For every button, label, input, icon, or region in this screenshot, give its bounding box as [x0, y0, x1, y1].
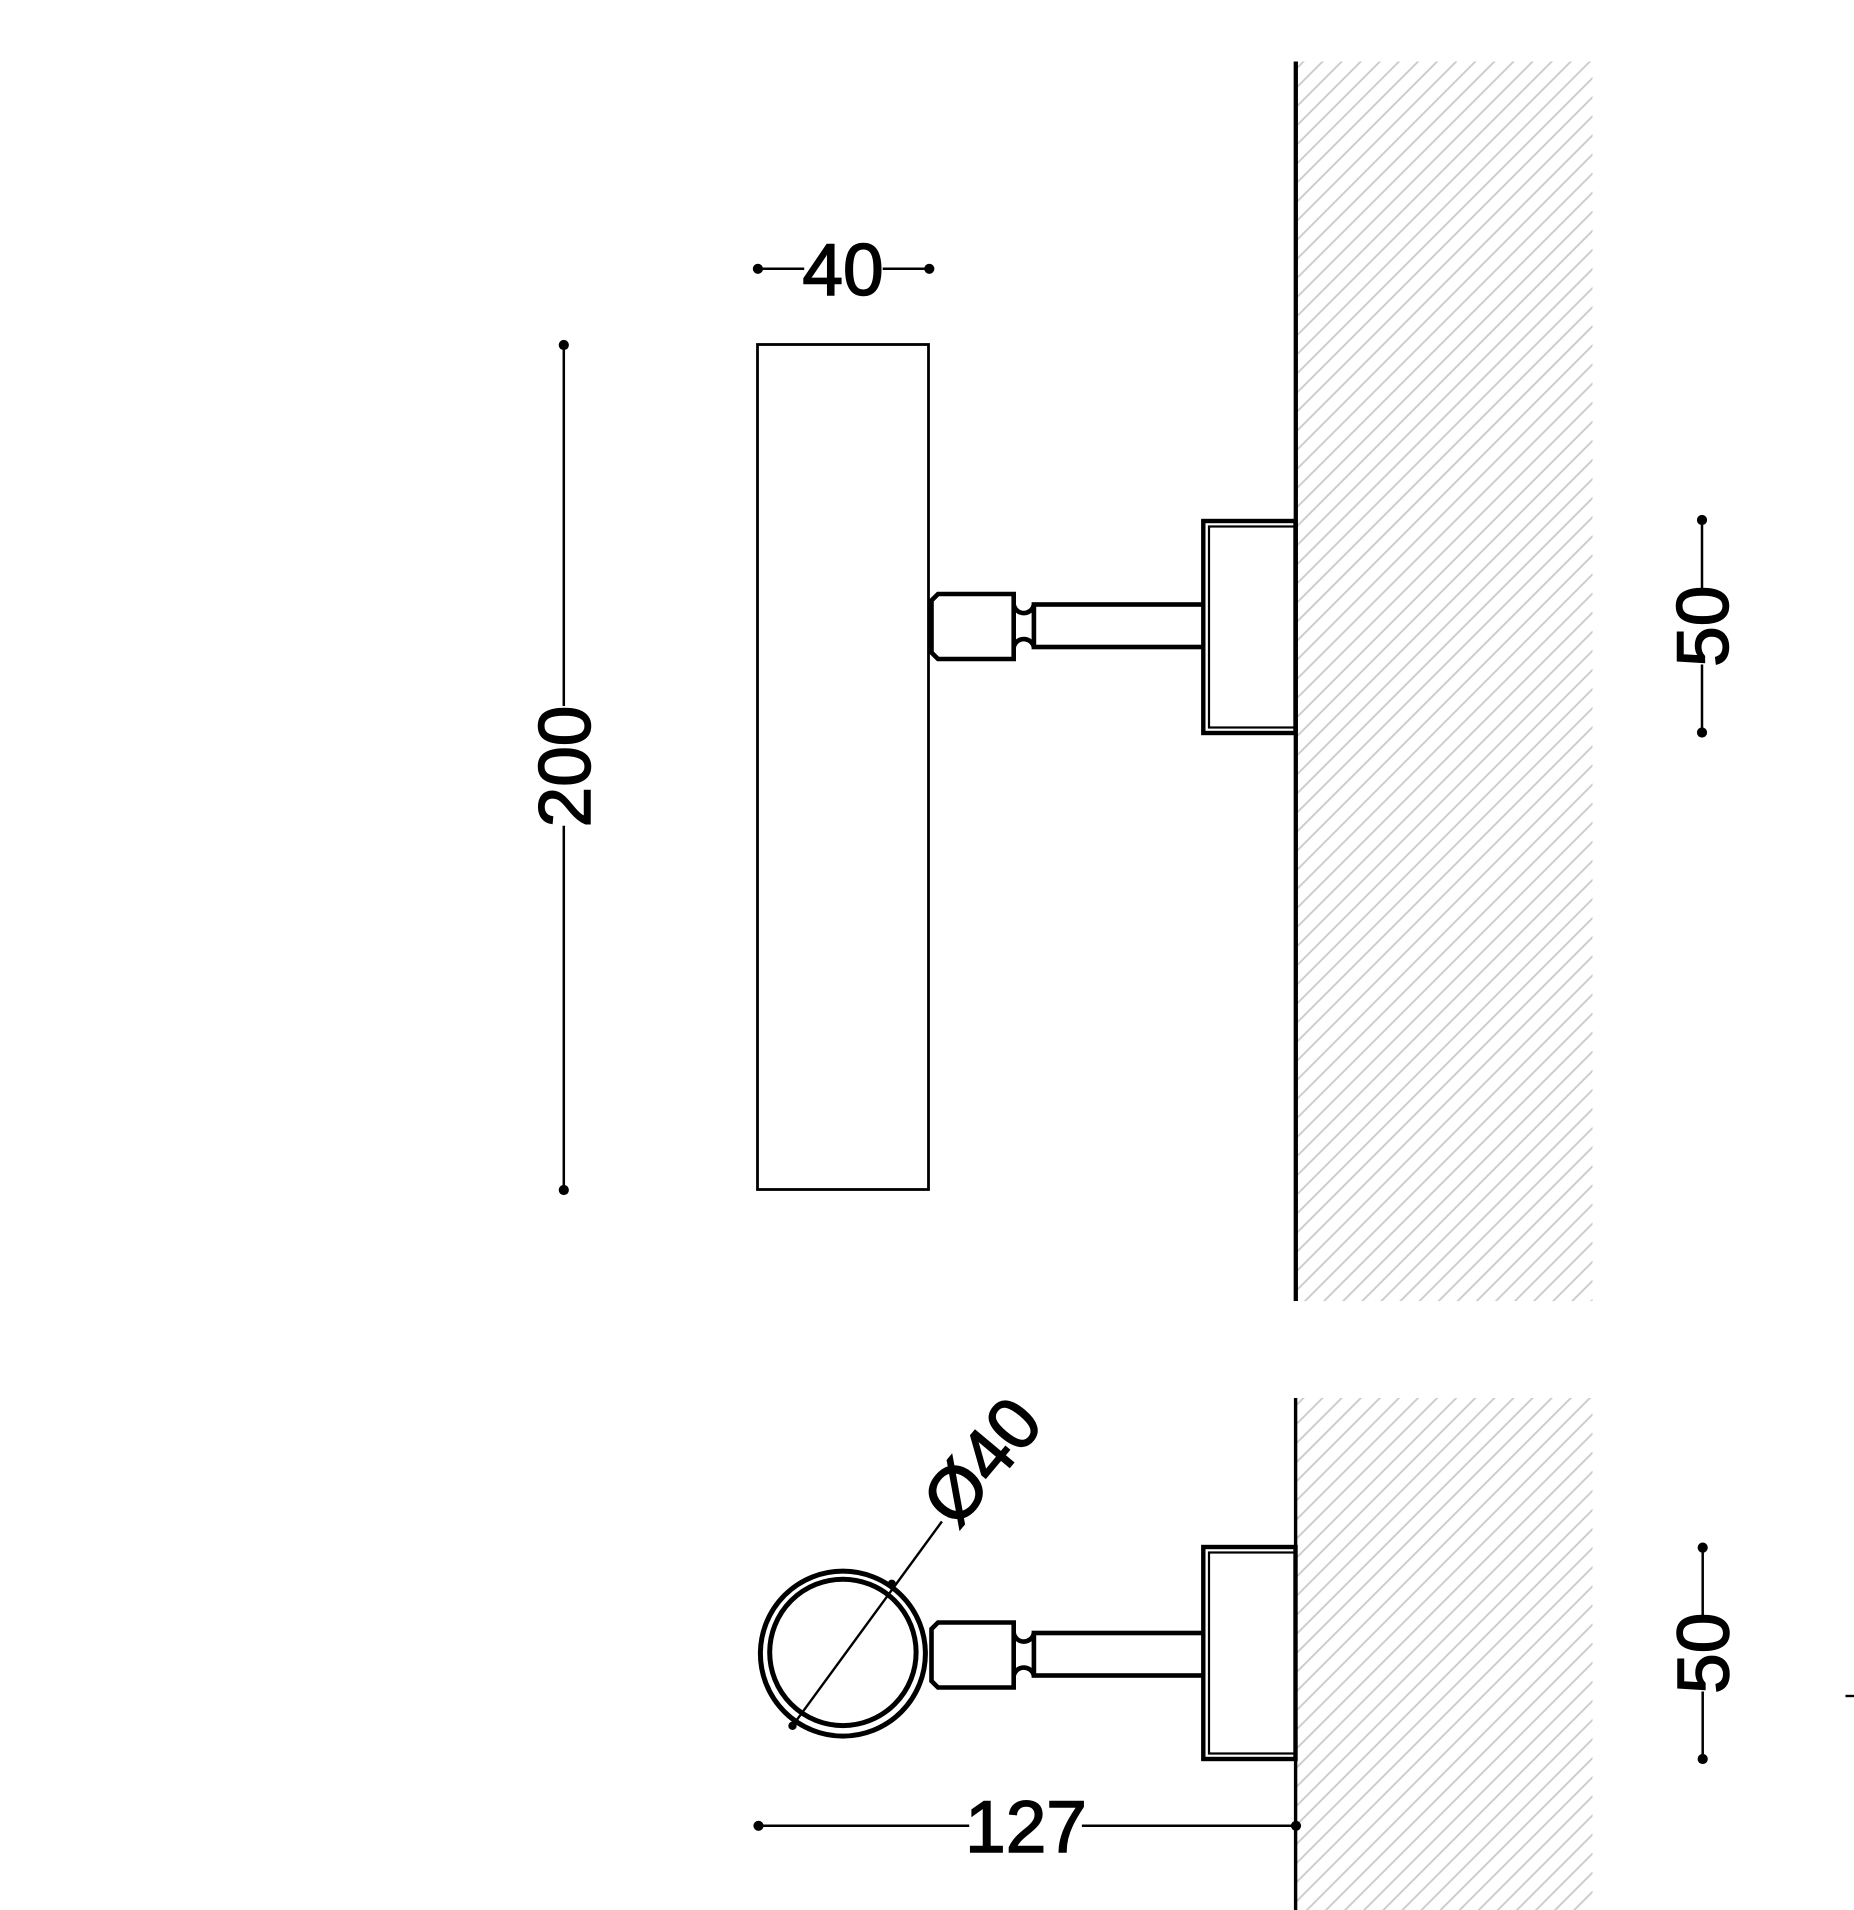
- neck top fillet (top view): [1014, 602, 1034, 614]
- wall hatching (bottom view): [1297, 1398, 1593, 1910]
- svg-text:50: 50: [1663, 586, 1744, 667]
- lamp tube (top view): [758, 345, 929, 1190]
- svg-text:Ø40: Ø40: [907, 1383, 1058, 1541]
- small tick (right edge): [1846, 1695, 1854, 1697]
- wall hatching (top view): [1298, 62, 1593, 1302]
- swivel knuckle (top view): [932, 594, 1014, 659]
- swivel knuckle (bottom view): [932, 1623, 1014, 1688]
- arm (bottom view): [1034, 1633, 1206, 1676]
- wall line (top view): [1294, 62, 1298, 1302]
- neck bottom fillet (bottom view): [1013, 1668, 1033, 1680]
- lamp tube outer circle (bottom view): [760, 1571, 925, 1736]
- mounting plate outer (bottom view): [1203, 1547, 1295, 1759]
- svg-text:40: 40: [802, 230, 883, 311]
- dimension 200 (left): [525, 340, 606, 1195]
- svg-text:50: 50: [1664, 1613, 1745, 1694]
- dimension 40 (top): [753, 230, 935, 311]
- svg-text:200: 200: [525, 706, 606, 828]
- diameter leader line (bottom view): [793, 1522, 942, 1726]
- arm (top view): [1034, 605, 1206, 648]
- mounting plate outer (top view): [1203, 521, 1295, 733]
- dimension 50 (bottom right): [1664, 1543, 1745, 1765]
- mounting plate inner (top view): [1209, 527, 1296, 728]
- lamp tube inner circle (bottom view): [770, 1579, 916, 1725]
- wall line (bottom view): [1294, 1398, 1297, 1910]
- dimension 50 (top right): [1663, 515, 1744, 738]
- neck top fillet (bottom view): [1014, 1630, 1034, 1642]
- svg-text:127: 127: [965, 1787, 1087, 1868]
- neck bottom fillet (top view): [1013, 639, 1033, 651]
- dimension 127 (bottom): [753, 1787, 1301, 1868]
- mounting plate inner (bottom view): [1209, 1553, 1296, 1754]
